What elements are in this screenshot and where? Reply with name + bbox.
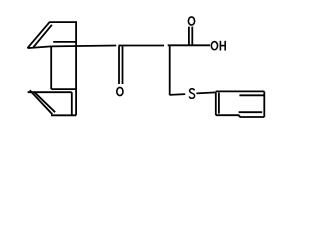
bond phenyl top edge xyxy=(216,90,264,92)
bond inner double line of lower diagonal xyxy=(34,92,55,113)
bond acid C=O line 2 xyxy=(191,27,193,45)
bond phenyl bottom step connector xyxy=(238,115,240,117)
bond chain ketone to methine xyxy=(118,45,164,47)
atom label S thioether xyxy=(189,89,194,99)
bond ketone C=O line 2 xyxy=(122,46,124,84)
atom label O ketone xyxy=(117,87,123,95)
bond chain from apex to cage carbon xyxy=(28,46,52,48)
bond phenyl right edge xyxy=(263,91,265,117)
bond phenyl bottom-left edge xyxy=(216,114,240,116)
bond phenyl left outer edge xyxy=(215,91,217,115)
bond acid C=O line 1 xyxy=(188,27,190,45)
atom label O acid xyxy=(188,17,194,25)
bond inner double line horizontal upper xyxy=(53,41,76,43)
bond phenyl inner bottom-right double line xyxy=(239,111,263,113)
bond chain methine to acid OH xyxy=(168,44,210,46)
bond lower horizontal b xyxy=(28,91,72,93)
atom label H of OH acid xyxy=(220,41,226,51)
bond phenyl inner top-right double line xyxy=(239,94,264,96)
atom label O of OH acid xyxy=(211,42,217,50)
bond lower horizontal a xyxy=(51,88,76,90)
bond diagonal lower ring edge xyxy=(30,90,53,114)
bond top edge of upper ring xyxy=(49,21,76,23)
bond ketone C=O line 1 xyxy=(118,46,120,84)
bond methine down to CH2 xyxy=(169,45,171,95)
bond chain cage to ketone xyxy=(51,45,116,48)
bond phenyl left inner double line xyxy=(218,93,220,114)
bond S to phenyl xyxy=(196,92,216,93)
bond right vertical long edge xyxy=(75,21,77,115)
bond middle vertical xyxy=(50,46,52,89)
bond CH2 to S left part xyxy=(170,93,186,96)
bond phenyl bottom-right outer edge xyxy=(239,116,264,118)
bond bottom edge lower ring xyxy=(51,114,76,116)
bond inner double line of upper diagonal xyxy=(33,25,52,47)
bond diagonal upper-left ring edge xyxy=(28,22,50,48)
bond inner vertical lower right xyxy=(71,92,73,115)
